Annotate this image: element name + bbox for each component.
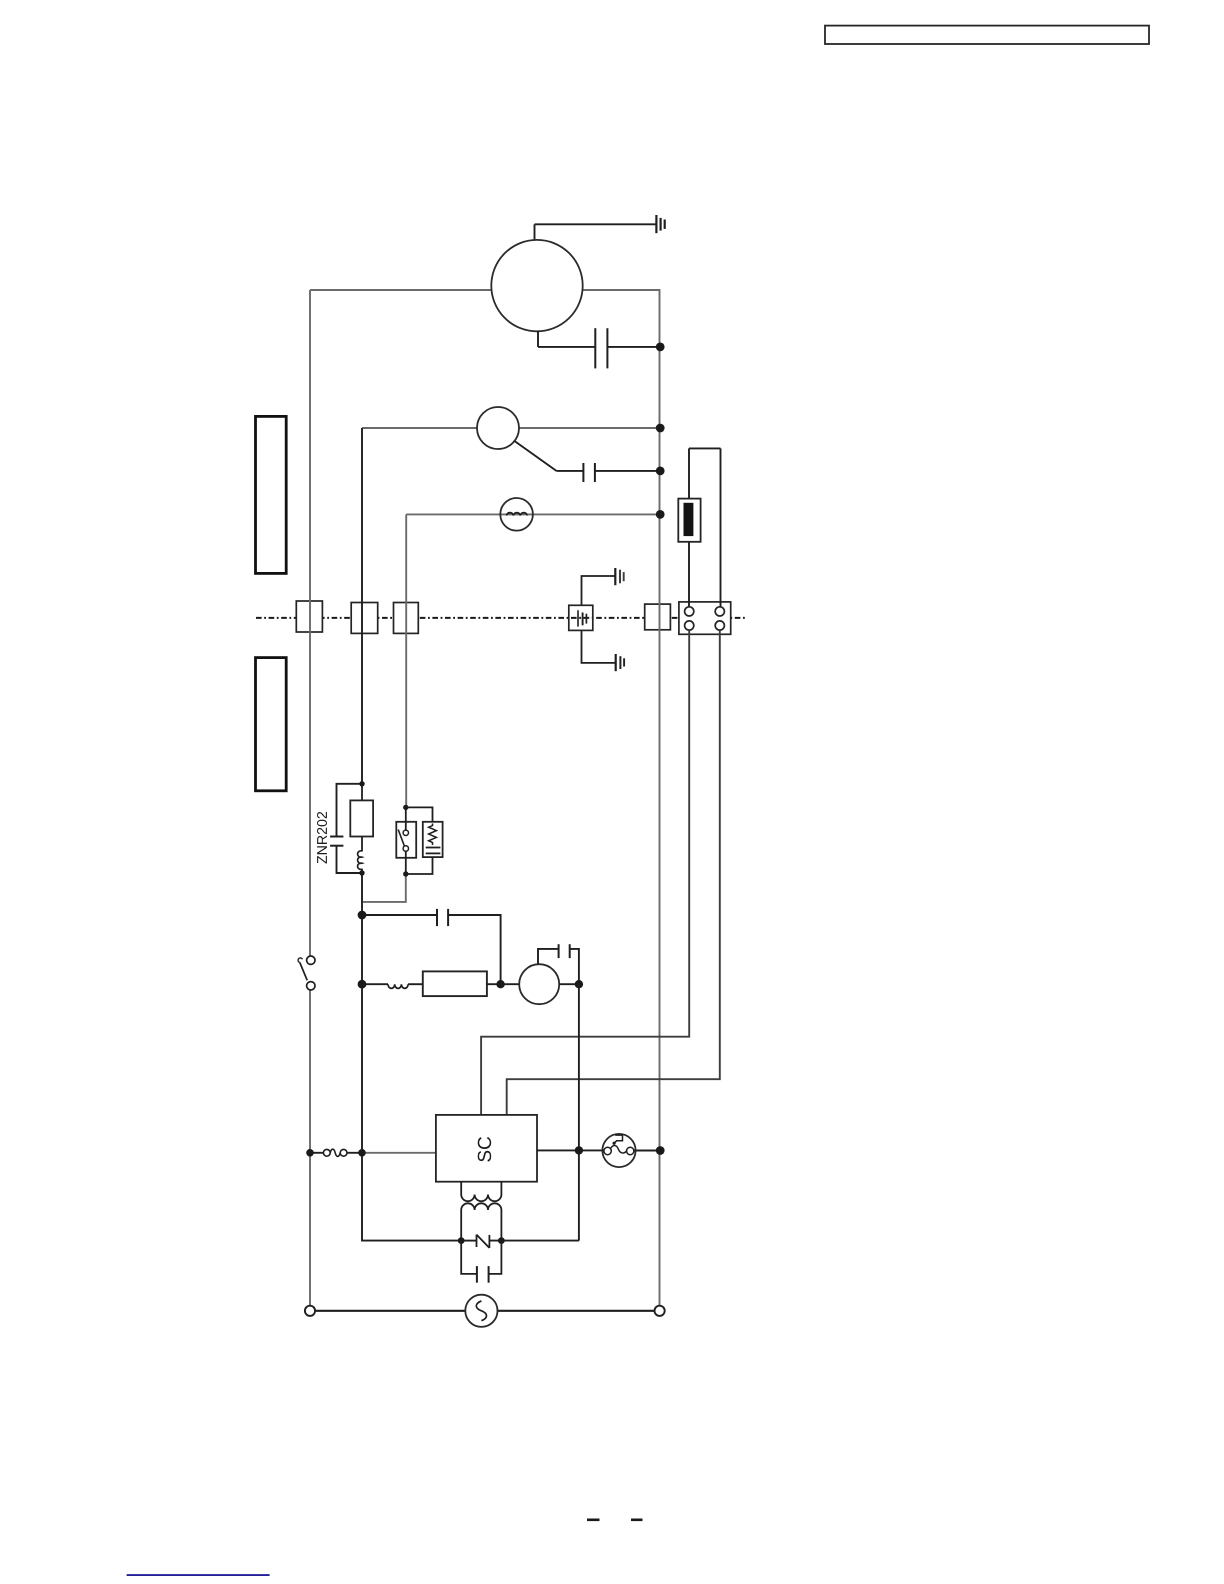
junction dot xyxy=(306,1149,314,1157)
junction dot xyxy=(358,911,367,920)
fuse F1 (on left bus, y=1152.8) xyxy=(310,1149,362,1156)
wire: protector to right bus xyxy=(636,1150,660,1152)
transformer T1 secondary xyxy=(461,1203,501,1240)
thermal protector (circle with bimetal) xyxy=(602,1134,635,1167)
wire: SC right to protector xyxy=(537,1149,602,1151)
junction dot xyxy=(358,980,367,989)
junction dot (bottom of ZNR branch) xyxy=(359,870,364,875)
junction dot (x=579 crossing) xyxy=(575,1146,583,1154)
wire: lamp row left segment (y=428) xyxy=(362,427,477,429)
wire: x=579 vertical down to arrester row xyxy=(578,984,580,1240)
junction dot xyxy=(458,1237,465,1244)
capacitor C1 xyxy=(595,328,660,368)
motor M1 (large circle) xyxy=(491,224,595,347)
ground G2 (above EMI box) xyxy=(582,568,624,605)
junction dot (bottom of relay branch) xyxy=(403,871,408,876)
wire: left vertical bus (lower part, x=310) xyxy=(309,990,311,1306)
power switch S1 (on left bus) xyxy=(298,956,315,990)
wire: heater row (y=514.4) through coil circle to bus xyxy=(406,513,659,515)
switch lever from lamp L1 xyxy=(515,441,557,471)
connector square CN4 xyxy=(645,604,671,630)
capacitor C2 xyxy=(556,463,660,482)
capacitor C4 row (y=915) xyxy=(362,909,501,984)
wire: relay branch bottom return (x=406 to main line) xyxy=(362,874,406,902)
junction dot xyxy=(575,980,583,988)
ground G3 (below EMI box) xyxy=(582,630,625,671)
connector block CN5 (4 pins) xyxy=(679,602,731,634)
connector block pins (4 circles) xyxy=(685,607,725,630)
junction dot (top of ZNR branch) xyxy=(359,781,364,786)
wire: motor M2 right to junction xyxy=(559,983,579,985)
tall rectangle (label panel lower) xyxy=(256,658,287,791)
junction dot xyxy=(496,980,504,988)
wire: CN5 bottom-right pin down, corner to SC top (x=720) xyxy=(507,630,720,1115)
junction dot (top of relay branch) xyxy=(403,805,408,810)
wire: fuse row gray segment into SC board xyxy=(362,1152,436,1154)
terminal (right open circle) xyxy=(655,1306,665,1316)
junction dot xyxy=(358,1149,366,1157)
wire: motor M1 right to right bus xyxy=(583,289,661,291)
chassis ground G1 (top, rotated) xyxy=(535,215,665,233)
wire: left vertical bus (upper part, x=310) xyxy=(309,290,311,956)
control board SC xyxy=(436,1115,537,1182)
capacitor C3 (over motor M2) xyxy=(538,944,579,984)
fuse F2 (cartridge, right side) xyxy=(678,448,720,607)
varistor ZNR202 branch xyxy=(330,784,362,873)
chassis boundary dash-dot line xyxy=(256,617,746,619)
lamp L1 (middle circle) xyxy=(477,407,519,449)
transformer T1 primary xyxy=(461,1182,501,1202)
AC source row (y=1310.8) xyxy=(315,1295,654,1327)
thermostat / heater circle with coil xyxy=(500,498,533,531)
wire: lamp row right segment to bus xyxy=(519,427,660,429)
inductor L2 (motor row) xyxy=(362,984,423,988)
label ZNR202 xyxy=(317,812,327,864)
junction dot xyxy=(656,467,665,476)
wire: main black vertical x=362 lower segment (ZNR bottom node to arrester row) xyxy=(362,873,461,1241)
wire: box to motor M2 xyxy=(487,983,519,985)
connector square CN2 xyxy=(351,603,378,634)
connector square CN3 xyxy=(394,603,419,634)
wire: main black vertical x=362 upper segment (lamp row corner to ZNR node) xyxy=(361,428,363,784)
wire: right vertical bus (x=659.5) xyxy=(659,290,661,1306)
junction dot xyxy=(498,1237,505,1244)
wire: CN5 bottom-left pin down, corner to SC top (x=690) xyxy=(481,630,689,1115)
relay contact box xyxy=(396,807,416,874)
motor M2 (compressor circle) xyxy=(519,964,559,1004)
junction dot xyxy=(656,510,665,519)
EMI feed-through filter box xyxy=(569,605,593,630)
capacitor C5 (below arrester) xyxy=(461,1241,501,1283)
tall rectangle (label panel upper) xyxy=(256,416,287,573)
junction dot xyxy=(656,424,665,433)
page number dashes xyxy=(587,1519,643,1522)
hyperlink underline (blue) xyxy=(127,1574,270,1576)
surge arrester Z1 row xyxy=(461,1235,579,1248)
RC snubber box (resistor + capacitor) xyxy=(406,807,443,874)
junction dot xyxy=(656,1146,665,1155)
component box (PTC) xyxy=(423,971,487,996)
junction dot xyxy=(656,343,665,352)
connector square CN1 xyxy=(296,601,322,632)
wire: vertical x=406 from heater row down to relay branch xyxy=(405,514,407,807)
terminal (left open circle) xyxy=(305,1306,315,1316)
wire: top row to motor M1 left xyxy=(310,289,492,291)
relay coil box (with inductor) xyxy=(350,784,373,873)
title block box (empty) xyxy=(825,26,1149,44)
